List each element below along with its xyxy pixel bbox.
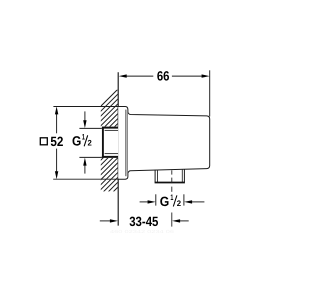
label G 1/2 left	[72, 133, 92, 149]
left tail	[100, 220, 112, 222]
right tail	[191, 201, 205, 203]
arrow down 52	[55, 171, 58, 179]
outlet inner thread line right	[181, 169, 183, 182]
dim line right segment	[172, 75, 203, 77]
left tick	[155, 194, 157, 205]
ext line top	[79, 127, 102, 129]
svg-text:2: 2	[177, 199, 182, 208]
svg-text:G: G	[160, 194, 170, 209]
dim line lower segment	[56, 149, 58, 174]
dimension G1/2 left (box height)	[79, 111, 102, 173]
concealed box white fill	[100, 127, 118, 159]
flange (escutcheon) outline	[118, 107, 128, 180]
svg-text:1: 1	[82, 133, 85, 142]
box thick top edge	[102, 127, 118, 129]
arrow right toward wall face	[110, 219, 118, 222]
box inner thread line top	[105, 129, 119, 131]
outlet nipple left outer line	[154, 170, 156, 183]
arrow right of 66	[202, 74, 210, 77]
svg-text:33-45: 33-45	[129, 214, 159, 229]
svg-text:1: 1	[170, 193, 173, 202]
square symbol	[40, 138, 47, 145]
stub above	[84, 111, 86, 121]
flange face crease line	[125, 110, 127, 177]
wall hatch	[60, 87, 179, 245]
ext line bottom	[79, 156, 102, 158]
box inner thread line bottom	[105, 153, 119, 155]
outlet inner thread line left	[157, 170, 159, 183]
svg-text:66: 66	[157, 69, 170, 84]
outlet bottom thick edge	[155, 182, 185, 184]
left tail	[140, 201, 150, 203]
arrow left of 66	[119, 74, 127, 77]
arrow down to box top	[83, 120, 86, 128]
svg-text:G: G	[72, 134, 81, 149]
ext line bottom (flange bottom)	[53, 178, 119, 180]
outlet right outer line	[183, 169, 185, 182]
right tail	[179, 220, 189, 222]
outlet centerline dashes	[171, 170, 173, 226]
label G 1/2 bottom	[160, 193, 182, 209]
arrow left toward outlet right edge	[184, 200, 192, 203]
box thick left edge	[102, 127, 104, 158]
dimension 66 top	[125, 70, 210, 116]
svg-text:460 02342 0234 06: 460 02342 0234 06	[110, 229, 175, 234]
stub below	[84, 165, 86, 174]
dimension 33-45 bottom	[100, 220, 189, 222]
arrow right toward outlet left edge	[148, 200, 156, 203]
wall face line	[117, 72, 119, 225]
dimension G1/2 bottom (outlet thread)	[140, 194, 205, 205]
svg-text:52: 52	[50, 134, 63, 149]
dim line left segment	[125, 75, 154, 77]
box thick bottom edge	[102, 156, 118, 158]
right tick	[183, 194, 185, 205]
dimension square 52 left	[53, 107, 119, 180]
arrow up 52	[55, 106, 58, 114]
ext line top (flange top)	[53, 106, 119, 108]
svg-text:2: 2	[88, 139, 93, 148]
arrow up to box bottom	[83, 158, 86, 166]
arrow left toward outlet centerline	[172, 219, 180, 222]
ext line right at body end	[209, 70, 211, 116]
body cone outline	[128, 112, 210, 172]
dim line upper segment	[56, 113, 58, 134]
